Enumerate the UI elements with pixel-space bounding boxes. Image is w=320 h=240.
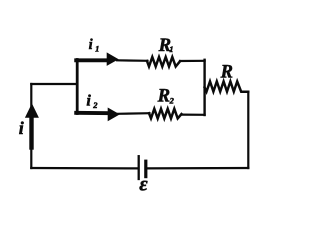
svg-text:R: R (157, 86, 170, 107)
wire bottom branch right segment (182, 113, 205, 115)
wire top branch right segment (180, 60, 205, 62)
svg-text:i: i (19, 118, 24, 138)
resistor R (205, 81, 249, 91)
svg-text:1: 1 (169, 44, 173, 54)
arrow shaft i (bold, left wire) (29, 116, 33, 148)
svg-text:ε: ε (139, 173, 148, 195)
battery plate short (right) (144, 161, 147, 176)
battery plate long (left) (138, 156, 140, 179)
arrowhead i1 (right) (107, 52, 119, 66)
arrowhead i2 (right) (108, 108, 120, 122)
wire bottom right segment (147, 167, 249, 170)
wire right vertical (247, 92, 249, 168)
svg-text:1: 1 (95, 44, 99, 54)
node junction vertical (splits to two branches) (76, 60, 79, 114)
wire mid-right vertical (203, 60, 205, 115)
resistor R1 (147, 57, 180, 67)
svg-text:R: R (220, 62, 233, 82)
wire bottom branch thin segment (117, 112, 150, 115)
svg-text:2: 2 (92, 100, 98, 110)
wire top branch bold segment (76, 58, 109, 62)
svg-text:i: i (86, 93, 91, 110)
svg-text:2: 2 (169, 96, 175, 106)
wire bottom left segment (31, 167, 137, 170)
resistor R2 (149, 109, 182, 119)
wire left vertical (battery to top-left corner) (30, 84, 32, 168)
svg-text:i: i (89, 37, 93, 53)
arrowhead i (up) (25, 103, 39, 117)
wire bottom branch bold segment (76, 111, 109, 115)
wire feed horizontal to junction (31, 83, 77, 85)
wire top branch thin segment (117, 59, 148, 62)
